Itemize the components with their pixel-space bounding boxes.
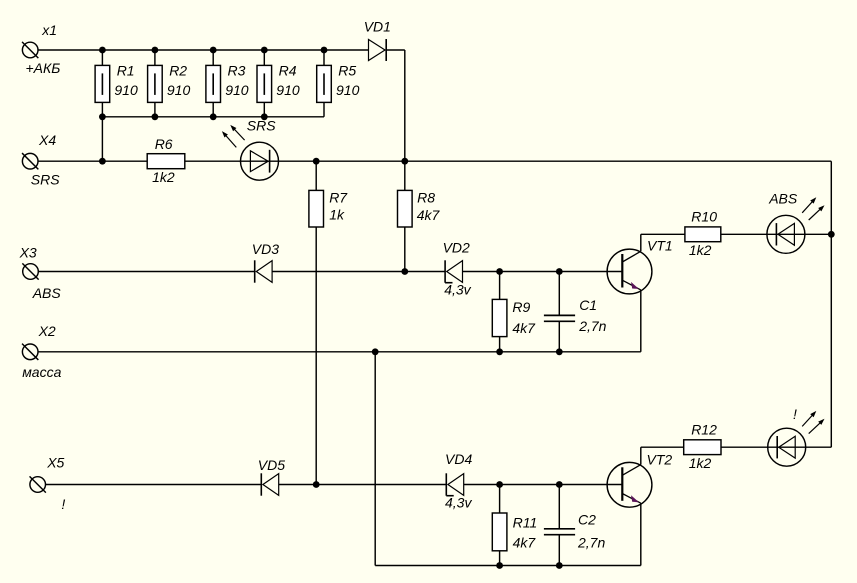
resistor R5 <box>317 50 332 117</box>
label R2 value 910 <box>167 82 191 98</box>
junction масса/drop <box>372 348 379 355</box>
wire X4 to R6 <box>38 160 147 162</box>
wire top rail X1 to VD1 <box>38 49 369 51</box>
svg-text:R5: R5 <box>338 62 356 78</box>
junction top rail <box>321 47 328 54</box>
wire R6 to LED HL1 <box>185 160 241 162</box>
svg-text:910: 910 <box>336 82 360 98</box>
junction X3/R9 <box>496 268 503 275</box>
junction SRS/R1 column <box>99 158 106 165</box>
label R2 <box>169 62 187 78</box>
label SRS LED <box>247 117 276 133</box>
connector X1 <box>22 42 38 58</box>
VT2 emitter arrow <box>631 495 639 502</box>
svg-text:4k7: 4k7 <box>512 320 536 336</box>
svg-text:910: 910 <box>276 82 300 98</box>
label ABS LED <box>768 190 798 206</box>
svg-text:R3: R3 <box>228 62 246 78</box>
junction X5/R7 <box>313 481 320 488</box>
svg-text:R11: R11 <box>513 514 538 530</box>
junction top rail <box>261 47 268 54</box>
zener diode VD4 <box>446 473 463 495</box>
svg-text:VD3: VD3 <box>252 241 279 257</box>
label R12 value 1k2 <box>689 455 712 471</box>
wire resistor bank bottom rail <box>102 116 324 118</box>
label R4 value 910 <box>276 82 300 98</box>
junction bottom rail <box>99 113 106 120</box>
zener diode VD2 <box>445 260 462 282</box>
label SRS net <box>31 172 60 188</box>
junction top rail <box>210 47 217 54</box>
label VD2 value 4,3v <box>444 282 471 298</box>
svg-text:SRS: SRS <box>247 117 276 133</box>
label R12 <box>691 422 717 438</box>
svg-text:VD5: VD5 <box>258 457 285 473</box>
wire VT2 collector to R12 <box>641 446 684 448</box>
junction right rail / LED ABS <box>828 231 835 238</box>
junction top rail <box>152 47 159 54</box>
svg-text:X5: X5 <box>46 455 64 471</box>
label C2 value 2,7n <box>577 535 605 551</box>
label VT1 <box>647 237 673 253</box>
wire R1 column to SRS net <box>101 117 103 161</box>
svg-text:R12: R12 <box>691 422 717 438</box>
resistor R3 <box>206 50 221 117</box>
label R5 <box>338 62 356 78</box>
svg-text:C1: C1 <box>579 297 597 313</box>
label R10 value 1k2 <box>689 242 712 258</box>
svg-text:R6: R6 <box>155 136 173 152</box>
LED ! arrows <box>802 411 824 434</box>
label VD4 <box>445 451 472 467</box>
svg-text:R9: R9 <box>512 299 530 315</box>
junction SRS/R8 <box>401 158 408 165</box>
LED SRS indicator <box>241 142 279 180</box>
label ABS net <box>32 285 62 301</box>
label R1 value 910 <box>114 82 138 98</box>
wire SRS net to right rail <box>279 161 832 447</box>
label C2 <box>578 512 596 528</box>
resistor R10 <box>685 227 721 242</box>
svg-text:R10: R10 <box>691 209 717 225</box>
label R7 value 1k <box>329 207 345 223</box>
label R11 <box>513 514 538 530</box>
diode VD3 <box>255 260 272 282</box>
label VD3 <box>252 241 279 257</box>
svg-text:ABS: ABS <box>32 285 62 301</box>
svg-text:4k7: 4k7 <box>513 534 537 550</box>
svg-text:VT2: VT2 <box>647 451 673 467</box>
wire VD1 to R8 column <box>386 50 405 161</box>
wire R12 to LED ! <box>721 446 768 448</box>
svg-text:910: 910 <box>225 82 249 98</box>
label R4 <box>279 62 297 78</box>
label R3 value 910 <box>225 82 249 98</box>
label R8 <box>417 189 435 205</box>
label ! net <box>61 496 65 512</box>
wire VD3 to VD2 <box>272 271 445 273</box>
svg-text:4,3v: 4,3v <box>445 495 472 511</box>
svg-text:VD1: VD1 <box>364 18 391 34</box>
wire R10 to LED ABS <box>721 233 767 235</box>
wire VD4 to VT2 base <box>464 484 623 486</box>
label масса net <box>22 364 61 380</box>
label R11 value 4k7 <box>513 534 537 550</box>
svg-text:!: ! <box>793 406 797 422</box>
junction X5/R11 <box>496 481 503 488</box>
svg-text:2,7n: 2,7n <box>578 318 606 334</box>
connector X3 <box>22 263 38 279</box>
junction X5/C2 <box>556 481 563 488</box>
junction bottom/C2 <box>556 562 563 569</box>
svg-text:масса: масса <box>22 364 61 380</box>
label R1 <box>117 62 135 78</box>
wire X2 to VT1 emitter <box>38 351 641 353</box>
VT1 emitter arrow <box>631 282 639 289</box>
transistor VT2 <box>607 447 652 565</box>
label R10 <box>691 209 717 225</box>
junction X3/C1 <box>556 268 563 275</box>
svg-text:1k: 1k <box>329 207 345 223</box>
wire VT1 collector to R10 <box>641 233 685 235</box>
label R9 <box>512 299 530 315</box>
wire VD5 to VD4 <box>279 484 447 486</box>
label R7 <box>329 189 348 205</box>
svg-text:4,3v: 4,3v <box>444 282 471 298</box>
svg-text:VD2: VD2 <box>443 239 470 255</box>
wire масса to bottom rail <box>375 352 641 566</box>
label R8 value 4k7 <box>417 207 441 223</box>
svg-text:1k2: 1k2 <box>689 242 712 258</box>
resistor R1 <box>95 50 110 117</box>
label VD2 <box>443 239 470 255</box>
resistor R12 <box>684 440 721 455</box>
connector X2 <box>22 344 38 360</box>
diode VD5 <box>261 473 278 495</box>
diode VD1 <box>369 39 387 61</box>
svg-text:1k2: 1k2 <box>152 169 175 185</box>
label X2 <box>38 323 56 339</box>
resistor R4 <box>257 50 272 117</box>
label R3 <box>228 62 246 78</box>
svg-text:X4: X4 <box>38 132 56 148</box>
svg-text:X3: X3 <box>19 244 37 260</box>
svg-text:+АКБ: +АКБ <box>26 60 61 76</box>
wire X3 to VD3 <box>38 271 254 273</box>
label ! LED <box>793 406 797 422</box>
label C1 value 2,7n <box>578 318 606 334</box>
resistor R6 <box>147 154 185 169</box>
LED ABS arrows <box>802 197 824 220</box>
capacitor C2 <box>544 485 575 566</box>
transistor VT1 <box>607 234 652 351</box>
label R6 value 1k2 <box>152 169 175 185</box>
svg-text:R8: R8 <box>417 189 435 205</box>
label VT2 <box>647 451 673 467</box>
junction top rail <box>99 47 106 54</box>
svg-text:x1: x1 <box>41 22 57 38</box>
junction X3/R8 <box>401 268 408 275</box>
resistor R7 <box>309 161 324 484</box>
LED ABS indicator <box>767 215 831 253</box>
junction bottom rail <box>261 113 268 120</box>
junction bottom rail <box>210 113 217 120</box>
svg-text:2,7n: 2,7n <box>577 535 605 551</box>
resistor R8 <box>398 161 413 271</box>
junction SRS/R7 <box>313 158 320 165</box>
label +АКБ <box>26 60 61 76</box>
svg-text:1k2: 1k2 <box>689 455 712 471</box>
wire X5 to VD5 <box>46 484 262 486</box>
label VD5 <box>258 457 285 473</box>
svg-text:SRS: SRS <box>31 172 60 188</box>
svg-text:910: 910 <box>114 82 138 98</box>
label X4 <box>38 132 56 148</box>
junction bottom/R11 <box>496 562 503 569</box>
label VD4 value 4,3v <box>445 495 472 511</box>
label R9 value 4k7 <box>512 320 536 336</box>
svg-text:X2: X2 <box>38 323 56 339</box>
svg-text:4k7: 4k7 <box>417 207 441 223</box>
label X3 <box>19 244 37 260</box>
svg-text:R2: R2 <box>169 62 187 78</box>
svg-text:!: ! <box>61 496 65 512</box>
junction масса/C1 <box>556 348 563 355</box>
junction bottom rail <box>152 113 159 120</box>
svg-text:VT1: VT1 <box>647 237 673 253</box>
resistor R9 <box>492 272 507 352</box>
svg-text:R7: R7 <box>329 189 348 205</box>
svg-text:R1: R1 <box>117 62 135 78</box>
resistor R11 <box>492 485 507 566</box>
label X5 <box>46 455 64 471</box>
connector X5 <box>30 476 46 492</box>
svg-text:910: 910 <box>167 82 191 98</box>
LED ! indicator <box>768 428 832 466</box>
wire VD2 to VT1 base <box>463 271 623 273</box>
svg-text:C2: C2 <box>578 512 596 528</box>
label X1 <box>41 22 57 38</box>
svg-text:VD4: VD4 <box>445 451 472 467</box>
label R6 <box>155 136 173 152</box>
capacitor C1 <box>544 272 575 352</box>
connector X4 <box>22 153 38 169</box>
label VD1 <box>364 18 391 34</box>
label C1 <box>579 297 597 313</box>
junction масса/R9 <box>496 348 503 355</box>
label R5 value 910 <box>336 82 360 98</box>
svg-text:R4: R4 <box>279 62 297 78</box>
resistor R2 <box>148 50 163 117</box>
LED SRS arrows <box>222 125 245 147</box>
svg-text:ABS: ABS <box>768 190 798 206</box>
